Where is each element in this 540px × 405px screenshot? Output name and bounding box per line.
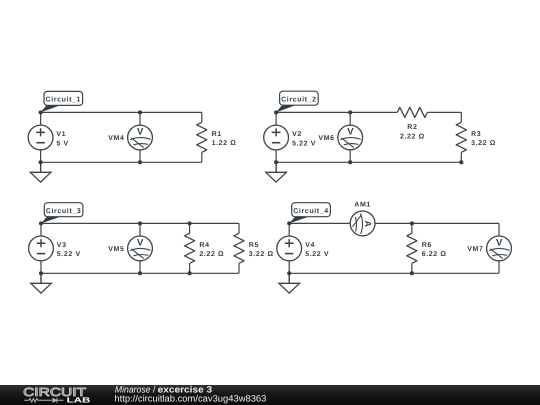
svg-text:AM1: AM1 [354,202,371,209]
svg-text:3.22 Ω: 3.22 Ω [471,140,496,147]
svg-text:Circuit_4: Circuit_4 [293,207,329,215]
svg-text:R5: R5 [249,242,259,249]
svg-text:V4: V4 [305,242,315,249]
svg-text:V2: V2 [292,131,302,138]
svg-text:Circuit_1: Circuit_1 [46,96,82,104]
svg-text:2.22 Ω: 2.22 Ω [400,133,425,140]
svg-text:VM4: VM4 [108,135,124,142]
svg-text:R6: R6 [422,242,432,249]
svg-text:6.22 Ω: 6.22 Ω [422,251,447,258]
svg-text:Circuit_2: Circuit_2 [281,95,317,103]
svg-text:VM5: VM5 [108,246,124,253]
svg-text:R4: R4 [199,242,209,249]
svg-text:V3: V3 [57,242,67,249]
svg-text:3.22 Ω: 3.22 Ω [249,251,274,258]
svg-text:Circuit_3: Circuit_3 [46,207,82,215]
svg-text:5.22 V: 5.22 V [57,251,81,258]
svg-text:5.22 V: 5.22 V [292,140,316,147]
svg-text:R1: R1 [212,131,222,138]
svg-text:VM6: VM6 [318,135,334,142]
svg-text:V1: V1 [56,131,66,138]
svg-text:http://circuitlab.com/cav3ug43: http://circuitlab.com/cav3ug43w8363 [114,394,266,404]
svg-text:2.22 Ω: 2.22 Ω [199,251,224,258]
svg-text:LAB: LAB [67,396,91,405]
svg-text:1.22 Ω: 1.22 Ω [212,140,237,147]
svg-text:R3: R3 [471,131,481,138]
svg-text:R2: R2 [407,124,417,131]
svg-text:VM7: VM7 [467,246,483,253]
svg-text:5.22 V: 5.22 V [305,251,329,258]
svg-text:5 V: 5 V [56,140,68,147]
